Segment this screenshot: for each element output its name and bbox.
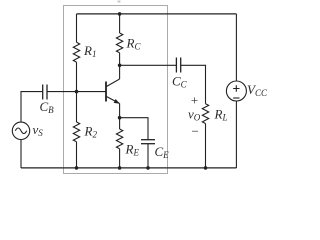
source vS: [12, 122, 29, 139]
capacitor CB: [43, 85, 47, 100]
svg-text:VCC: VCC: [247, 82, 268, 98]
svg-text:R2: R2: [84, 124, 98, 140]
resistor RL: [202, 104, 208, 168]
wire CE bottom: [147, 144, 149, 168]
transistor emitter arrow: [114, 99, 120, 104]
resistor R1: [73, 14, 79, 92]
wire collector stub: [119, 65, 121, 79]
svg-text:vS: vS: [33, 122, 44, 138]
svg-text:RE: RE: [125, 142, 140, 158]
wire top rail: [77, 13, 237, 15]
wire bottom rail: [21, 167, 236, 169]
node emitter junction: [118, 116, 122, 120]
tick mark top: [118, 1, 121, 3]
svg-text:CB: CB: [40, 99, 55, 115]
wire vS bottom lead: [20, 140, 22, 169]
svg-text:+: +: [190, 93, 199, 108]
wire VCC bottom lead: [235, 101, 237, 168]
source VCC: [226, 81, 246, 101]
node collector junction: [118, 64, 122, 68]
amplifier boundary gray box: [64, 6, 168, 174]
node RL ground junction: [204, 166, 208, 170]
resistor RC: [116, 14, 122, 65]
svg-text:CC: CC: [172, 74, 188, 90]
svg-text:RL: RL: [214, 107, 228, 123]
capacitor CE: [141, 140, 155, 144]
wire collector to CC: [120, 64, 177, 66]
svg-text:RC: RC: [126, 36, 142, 52]
wire CC to RL: [181, 65, 206, 103]
node base divider junction: [75, 90, 79, 94]
wire VCC top lead: [235, 14, 237, 81]
svg-text:vO: vO: [188, 107, 201, 123]
wire emitter stub: [119, 104, 121, 118]
wire emitter to CE: [120, 118, 148, 140]
svg-text:R1: R1: [83, 43, 96, 59]
svg-text:CE: CE: [155, 144, 170, 160]
node R2 ground junction: [75, 166, 79, 170]
wire CB to base node: [47, 91, 106, 93]
capacitor CC: [176, 58, 180, 73]
node CE ground junction: [146, 166, 150, 170]
node top rail RC junction: [118, 12, 122, 16]
wire vS top lead: [21, 92, 43, 123]
node RE ground junction: [118, 166, 122, 170]
transistor Q1: [106, 79, 120, 104]
resistor R2: [73, 92, 79, 168]
resistor RE: [116, 118, 122, 168]
svg-text:−: −: [191, 124, 200, 139]
